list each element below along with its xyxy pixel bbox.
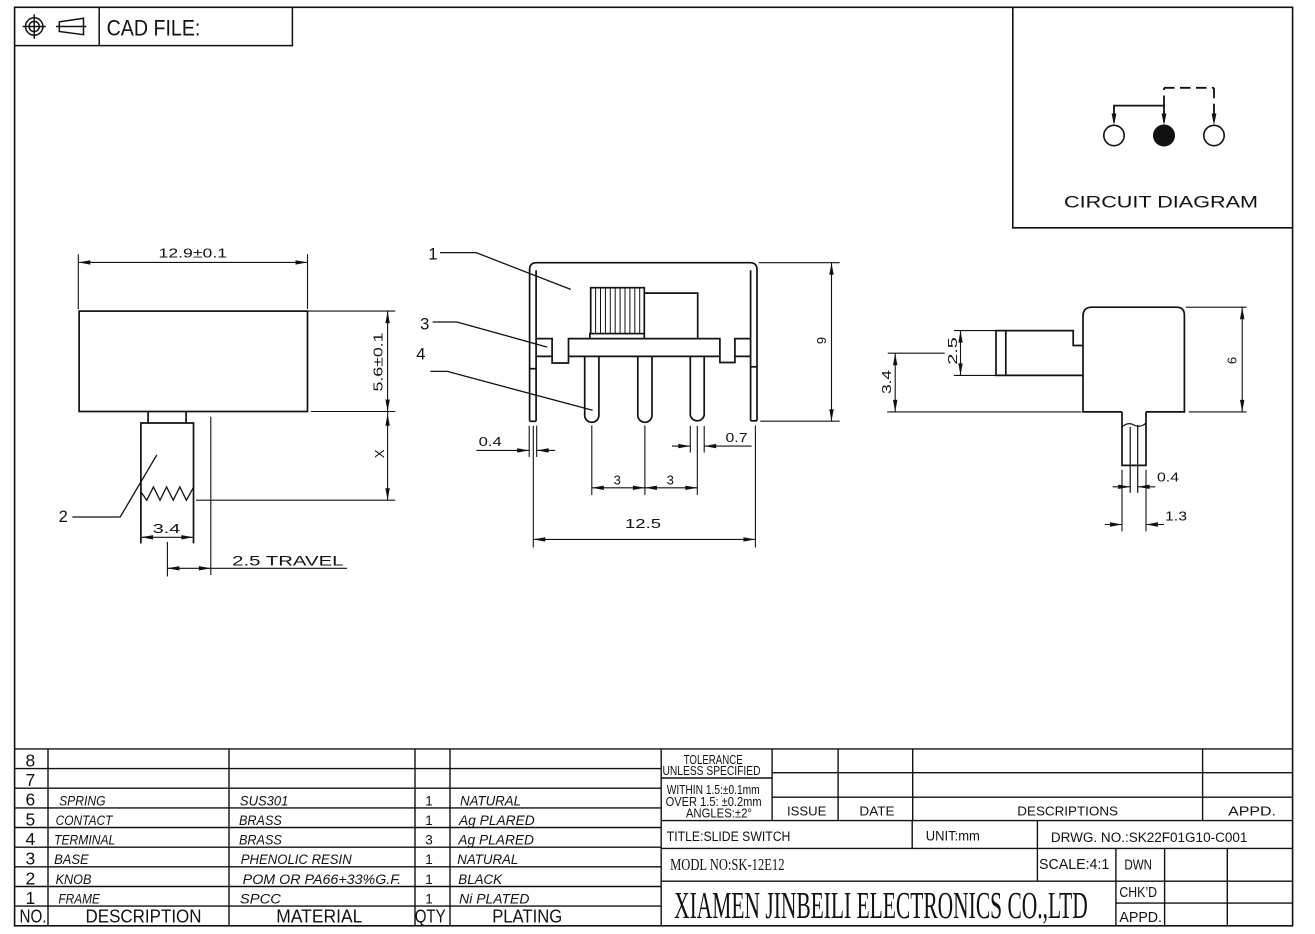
svg-text:1: 1 xyxy=(425,793,433,808)
projection symbol: target circles xyxy=(26,18,43,35)
mid view: terminal pin right xyxy=(690,356,704,420)
dim 2.5 travel line xyxy=(167,567,210,569)
svg-text:8: 8 xyxy=(26,750,36,770)
svg-text:PLATING: PLATING xyxy=(492,905,562,926)
terminal pin 3 circle xyxy=(1204,125,1224,145)
svg-text:1: 1 xyxy=(425,872,433,887)
arrows dim 3+3 xyxy=(592,486,604,490)
mid view: frame left joint tick xyxy=(530,368,537,370)
mid view: terminal pin left xyxy=(585,356,599,422)
side view: pin break squiggle xyxy=(1122,423,1146,427)
dim 12.5 line xyxy=(533,538,755,540)
svg-text:KNOB: KNOB xyxy=(56,872,92,887)
dim 2.5 travel long extension xyxy=(210,417,212,575)
arrows dim 5.6 xyxy=(385,311,389,323)
svg-text:APPD.: APPD. xyxy=(1228,804,1276,819)
svg-text:MODL NO:SK-12E12: MODL NO:SK-12E12 xyxy=(670,855,784,874)
svg-text:APPD.: APPD. xyxy=(1119,909,1162,926)
svg-text:3: 3 xyxy=(26,849,36,869)
arrows dim 6 xyxy=(1240,307,1244,319)
projection symbol: cone side view xyxy=(59,18,83,35)
arrows dim X xyxy=(385,414,389,426)
pin center extension lines xyxy=(591,425,593,495)
dim 2.5 extension lines xyxy=(954,330,996,332)
arrows dim 12.9 xyxy=(78,260,90,264)
svg-text:Ag PLARED: Ag PLARED xyxy=(457,833,534,848)
wire solid: common to pin1 xyxy=(1114,106,1164,122)
svg-text:SCALE:4:1: SCALE:4:1 xyxy=(1039,856,1109,873)
svg-text:X: X xyxy=(372,449,387,458)
dim 0.4 extension lines (side) xyxy=(1121,470,1123,532)
svg-text:3.4: 3.4 xyxy=(879,370,894,394)
svg-text:SPRING: SPRING xyxy=(59,793,105,808)
svg-text:XIAMEN JINBEILI ELECTRONICS CO: XIAMEN JINBEILI ELECTRONICS CO.,LTD xyxy=(674,885,1088,927)
arrow to pin1 xyxy=(1112,114,1117,126)
arrow to pin3 xyxy=(1212,114,1217,126)
dim 0.4 arrow lines xyxy=(476,449,529,451)
left view: knob neck xyxy=(147,412,149,424)
dim 12.9±0.1 line xyxy=(78,261,307,263)
mid view: base plate bottom edge segments xyxy=(536,355,552,357)
mid view: terminal pin middle xyxy=(638,356,652,422)
arrows dim 3.4 (side) xyxy=(893,353,897,365)
dim 12.5 extension lines xyxy=(532,426,534,548)
dim 2.5 travel tick xyxy=(166,542,168,577)
dim 6 extension lines xyxy=(1186,306,1247,308)
dim 9 line xyxy=(831,263,833,422)
svg-text:0.4: 0.4 xyxy=(479,434,502,449)
svg-text:Ni PLATED: Ni PLATED xyxy=(459,892,529,907)
svg-text:2: 2 xyxy=(59,508,68,526)
svg-text:Ag PLARED: Ag PLARED xyxy=(458,813,535,828)
svg-text:2: 2 xyxy=(26,868,36,888)
svg-text:6: 6 xyxy=(26,790,36,810)
mid view: frame outer outline with legs xyxy=(530,263,757,422)
dim 1.3 arrow lines xyxy=(1105,524,1122,526)
svg-text:3: 3 xyxy=(420,316,429,334)
svg-text:1: 1 xyxy=(425,813,433,828)
mid view: frame inner left line xyxy=(535,270,537,421)
arrows dim 0.4 (side) xyxy=(1118,485,1130,489)
svg-text:POM OR PA66+33%G.F.: POM OR PA66+33%G.F. xyxy=(243,872,401,887)
dim 6 line xyxy=(1241,307,1243,412)
side view: pin inner lines xyxy=(1129,427,1131,493)
side view: body outline xyxy=(1083,307,1184,412)
svg-text:2.5 TRAVEL: 2.5 TRAVEL xyxy=(232,553,344,569)
svg-text:0.4: 0.4 xyxy=(1157,470,1179,485)
mid view: knob serration lines xyxy=(595,288,597,334)
title block row lines xyxy=(772,772,1293,774)
svg-text:DESCRIPTIONS: DESCRIPTIONS xyxy=(1017,804,1118,819)
svg-text:4: 4 xyxy=(26,829,36,849)
svg-text:3: 3 xyxy=(425,833,433,848)
left view: switch body rectangle xyxy=(79,311,307,411)
dim 3.4 line xyxy=(141,536,193,538)
text 2.5 TRAVEL underline xyxy=(211,567,347,569)
dim X bottom extension xyxy=(196,499,395,501)
side view: pin outline xyxy=(1122,412,1146,466)
svg-text:DWN: DWN xyxy=(1124,857,1152,874)
mid view: base plate top edge with notches xyxy=(536,339,751,363)
leader for label 4 xyxy=(430,371,592,410)
dim 5.6±0.1 line xyxy=(387,311,389,411)
svg-text:CHK’D: CHK’D xyxy=(1119,884,1157,901)
arrows dim 2.5 travel xyxy=(167,566,179,570)
svg-text:NO.: NO. xyxy=(20,905,47,926)
svg-text:UNIT:mm: UNIT:mm xyxy=(926,829,980,844)
terminal pin 2 circle (common, filled) xyxy=(1154,125,1174,145)
svg-text:1: 1 xyxy=(425,892,433,907)
svg-text:QTY: QTY xyxy=(415,905,446,926)
svg-text:DESCRIPTION: DESCRIPTION xyxy=(86,905,202,926)
svg-text:3.4: 3.4 xyxy=(153,521,181,536)
svg-text:CIRCUIT DIAGRAM: CIRCUIT DIAGRAM xyxy=(1064,194,1258,212)
leader for label 1 xyxy=(440,253,571,290)
svg-text:6: 6 xyxy=(1225,357,1240,364)
dim 12.9±0.1 extension lines xyxy=(77,254,79,309)
svg-text:FRAME: FRAME xyxy=(58,892,100,907)
svg-text:BLACK: BLACK xyxy=(458,872,503,887)
mid view: frame left leg bottom cap xyxy=(530,420,537,422)
mid view: knob right plain block xyxy=(644,293,697,338)
dim 3.4 line xyxy=(894,353,896,412)
dim 2.5 line xyxy=(960,331,962,376)
left view: knob break zigzag xyxy=(141,487,194,500)
dim 5.6±0.1 extension lines xyxy=(308,310,396,312)
arrows dim 0.7 xyxy=(678,444,690,448)
dim 0.7 extension lines xyxy=(689,426,691,453)
svg-text:UNLESS SPECIFIED: UNLESS SPECIFIED xyxy=(663,763,761,778)
svg-text:2.5: 2.5 xyxy=(945,337,960,365)
svg-text:PHENOLIC RESIN: PHENOLIC RESIN xyxy=(241,852,352,867)
arrows dim 12.5 xyxy=(533,537,545,541)
leader for label 3 xyxy=(433,322,548,347)
dim 0.7 arrow lines xyxy=(672,445,690,447)
svg-text:MATERIAL: MATERIAL xyxy=(276,905,362,926)
svg-text:TITLE:SLIDE SWITCH: TITLE:SLIDE SWITCH xyxy=(667,829,791,844)
side view: knob face line xyxy=(1005,331,1007,376)
svg-text:TERMINAL: TERMINAL xyxy=(54,833,115,848)
svg-text:ISSUE: ISSUE xyxy=(787,804,827,819)
svg-text:0.7: 0.7 xyxy=(726,430,748,445)
svg-text:NATURAL: NATURAL xyxy=(460,793,521,808)
mid view: frame inner right line xyxy=(750,270,752,421)
svg-text:SPCC: SPCC xyxy=(240,892,281,907)
dim 0.4 arrow lines (side) xyxy=(1113,486,1131,488)
svg-text:SUS301: SUS301 xyxy=(240,793,289,808)
arrow to pin2 xyxy=(1162,114,1167,126)
svg-text:BASE: BASE xyxy=(54,852,89,867)
svg-text:1.3: 1.3 xyxy=(1165,509,1187,524)
mid view: frame right joint tick xyxy=(751,366,757,368)
parts table column lines xyxy=(47,749,49,926)
svg-text:ANGLES:±2°: ANGLES:±2° xyxy=(686,806,752,821)
circuit diagram box xyxy=(1013,7,1293,228)
svg-text:DATE: DATE xyxy=(859,804,895,819)
svg-text:1: 1 xyxy=(425,852,433,867)
svg-text:12.5: 12.5 xyxy=(625,516,661,531)
svg-text:5.6±0.1: 5.6±0.1 xyxy=(371,333,386,392)
terminal pin 1 circle xyxy=(1104,125,1124,145)
svg-text:9: 9 xyxy=(814,337,829,344)
side view: knob xyxy=(996,331,1083,376)
mid view: knob flange xyxy=(590,334,644,339)
svg-text:7: 7 xyxy=(26,770,36,790)
leader for label 2 xyxy=(72,455,156,517)
mid view: knob serrated block xyxy=(591,288,645,334)
arrows dim 3.4 xyxy=(141,535,153,539)
wire dashed: common to pin3 xyxy=(1163,88,1165,106)
svg-text:CONTACT: CONTACT xyxy=(56,813,114,828)
mid view: frame right leg bottom cap xyxy=(751,420,757,422)
svg-text:CAD FILE:: CAD FILE: xyxy=(107,16,201,41)
svg-text:BRASS: BRASS xyxy=(239,813,282,828)
svg-text:NATURAL: NATURAL xyxy=(457,852,518,867)
parts table row lines xyxy=(15,748,1293,750)
svg-text:12.9±0.1: 12.9±0.1 xyxy=(159,246,228,261)
title block column lines xyxy=(771,749,773,821)
arrows dim 1.3 xyxy=(1110,522,1122,526)
dim 3.4 extension top xyxy=(888,352,945,354)
arrows dim 0.4 xyxy=(517,448,529,452)
svg-text:3: 3 xyxy=(614,472,621,487)
dim 9 extension lines xyxy=(759,262,840,264)
svg-text:4: 4 xyxy=(416,346,425,364)
dim X line xyxy=(387,412,389,501)
dim 0.4 extension lines xyxy=(528,426,530,457)
svg-text:5: 5 xyxy=(26,809,36,829)
arrows dim 9 xyxy=(829,263,833,275)
svg-text:DRWG. NO.:SK22F01G10-C001: DRWG. NO.:SK22F01G10-C001 xyxy=(1051,830,1248,845)
svg-text:BRASS: BRASS xyxy=(239,833,282,848)
svg-text:1: 1 xyxy=(428,245,437,263)
title strip box top-left xyxy=(15,7,293,45)
left view: knob body xyxy=(141,423,194,543)
svg-text:3: 3 xyxy=(667,472,674,487)
dim 3+3 line xyxy=(592,487,698,489)
dim 3.4 extension bottom xyxy=(887,411,1081,413)
arrows dim 2.5 xyxy=(958,331,962,343)
title strip divider xyxy=(98,7,100,45)
